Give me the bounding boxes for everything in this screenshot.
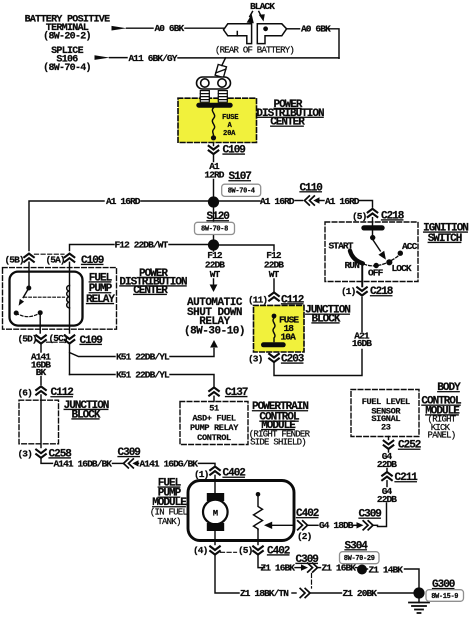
motor M xyxy=(203,500,228,525)
arrow from ASD relay label to K51 xyxy=(210,340,218,348)
relay coil xyxy=(67,286,70,308)
wire xyxy=(185,27,224,29)
ignition LOCK contact xyxy=(386,259,392,265)
svg-text:10A: 10A xyxy=(281,332,297,343)
fuel pump relay outline xyxy=(10,272,83,326)
svg-text:G4 18DB: G4 18DB xyxy=(319,520,354,531)
wire A21 16DB label xyxy=(352,331,372,350)
fuse A 20A element xyxy=(212,108,214,136)
ignition OFF contact xyxy=(374,263,379,268)
fuel level sender wiper arrow xyxy=(271,524,294,526)
svg-text:RELAY: RELAY xyxy=(86,294,115,306)
node SPLICE S106 label xyxy=(43,46,91,74)
svg-text:51: 51 xyxy=(209,404,219,414)
svg-text:(3): (3) xyxy=(248,354,263,365)
arrow into ASD relay label xyxy=(210,285,218,293)
wire A141 16DB BK xyxy=(40,344,42,352)
wire A141 16DB/BK xyxy=(41,458,53,463)
svg-text:(5D): (5D) xyxy=(18,334,37,345)
svg-text:ASD+ FUEL: ASD+ FUEL xyxy=(192,413,235,423)
svg-text:(1): (1) xyxy=(194,469,209,480)
svg-text:S120: S120 xyxy=(207,211,230,223)
fuse A 20A value label xyxy=(222,114,239,138)
fuel level sender dot xyxy=(256,492,261,497)
wire 5D inside relay xyxy=(39,313,41,333)
svg-text:C402: C402 xyxy=(296,508,319,520)
svg-text:8W-70-8: 8W-70-8 xyxy=(201,226,228,234)
wire resistor to pin 5 xyxy=(257,530,259,545)
svg-text:A141 16DB/BK: A141 16DB/BK xyxy=(54,458,113,469)
wire through junction block xyxy=(40,395,42,448)
svg-text:8W-70-29: 8W-70-29 xyxy=(344,555,375,563)
ignition RUN contact (thick) xyxy=(350,251,363,264)
relay contact common xyxy=(26,286,31,291)
power distribution center dashed box (relay) xyxy=(3,268,117,330)
svg-text:A1 16RD: A1 16RD xyxy=(106,196,141,207)
svg-text:BLOCK: BLOCK xyxy=(71,409,100,421)
wire A0 6BK left xyxy=(127,27,154,29)
svg-text:(1): (1) xyxy=(341,286,356,297)
battery terminal left (rear of battery) xyxy=(224,24,252,44)
svg-text:RUN: RUN xyxy=(345,260,361,271)
svg-text:C309: C309 xyxy=(118,447,141,459)
wire A0 6BK right xyxy=(287,28,300,30)
wire xyxy=(178,57,339,59)
wire dashed link between pins 4 and 5 xyxy=(221,551,237,553)
wire G4 18DB xyxy=(307,524,318,526)
arrow to battery positive terminal xyxy=(112,26,127,31)
wire xyxy=(213,180,215,198)
fuse 18 10A element xyxy=(272,314,277,319)
svg-text:C112: C112 xyxy=(281,294,304,306)
svg-text:(5): (5) xyxy=(238,545,253,556)
svg-text:A141 16DG/BK: A141 16DG/BK xyxy=(140,458,199,469)
node IGNITION SWITCH label xyxy=(423,223,468,245)
connector C252 xyxy=(384,441,394,449)
wire drop to fusible link xyxy=(222,58,226,66)
svg-text:(8W-70-4): (8W-70-4) xyxy=(43,62,91,74)
fuel pump module outline xyxy=(188,481,294,541)
fuse 18 bus bar xyxy=(261,342,286,347)
wire from A0 6BK down to splice feed xyxy=(329,29,340,59)
svg-text:12RD: 12RD xyxy=(204,170,224,181)
wire A1 16RD to ignition (right) xyxy=(219,200,260,202)
terminal spring right xyxy=(218,91,227,103)
wire A1 16RD to relay (left) xyxy=(141,200,208,202)
wire arrow from BLACK to right terminal xyxy=(259,12,265,22)
fuel level sender resistor xyxy=(254,497,263,530)
wire into ignition switch xyxy=(372,218,374,226)
wire Z1 18BK/TN xyxy=(215,555,239,593)
svg-text:FUSE: FUSE xyxy=(222,114,239,122)
svg-text:16DB: 16DB xyxy=(352,338,372,349)
ignition wiper arm with arrow xyxy=(373,240,381,251)
svg-text:Z1 20BK: Z1 20BK xyxy=(343,588,378,599)
svg-text:WT: WT xyxy=(210,269,221,280)
svg-text:C252: C252 xyxy=(398,440,421,452)
connector C109 (below PDC) xyxy=(209,146,219,154)
svg-text:8W-15-9: 8W-15-9 xyxy=(431,593,458,601)
node POWER DISTRIBUTION CENTER label (top) xyxy=(256,99,324,129)
svg-text:C109: C109 xyxy=(81,255,104,267)
wire 5C to K51 branches xyxy=(70,344,116,375)
svg-text:20A: 20A xyxy=(223,130,236,138)
svg-text:C203: C203 xyxy=(281,354,305,366)
node POWERTRAIN CONTROL MODULE label xyxy=(249,401,311,448)
svg-text:C110: C110 xyxy=(300,182,323,194)
wire A11 6BK/GY xyxy=(110,57,128,59)
wire dashed link between 5D and 5C xyxy=(47,341,65,343)
wire 5A into relay coil xyxy=(69,262,71,333)
node POWER DISTRIBUTION CENTER label (relay) xyxy=(119,268,187,297)
wire F12 to junction block fuse xyxy=(219,245,274,251)
relay contact to pin 5D xyxy=(38,310,43,315)
svg-text:(3): (3) xyxy=(18,448,33,459)
svg-text:PANEL): PANEL) xyxy=(428,431,456,441)
connector pass-through (two-cavity) xyxy=(197,77,231,89)
relay dashed contact arc xyxy=(16,313,40,317)
wire RUN output xyxy=(362,264,364,287)
svg-text:K51 22DB/YL: K51 22DB/YL xyxy=(116,351,170,362)
svg-text:OFF: OFF xyxy=(368,268,384,279)
svg-text:A0 6BK: A0 6BK xyxy=(301,24,331,35)
svg-text:(2): (2) xyxy=(297,531,312,542)
ignition switch dashed box xyxy=(325,222,418,282)
fusible link symbol xyxy=(215,64,226,77)
wire ignition output xyxy=(361,263,363,287)
svg-text:23: 23 xyxy=(381,423,391,433)
junction block box (yellow) xyxy=(254,305,305,352)
svg-text:C211: C211 xyxy=(395,472,419,484)
svg-text:PUMP RELAY: PUMP RELAY xyxy=(190,423,239,433)
arrow to splice S106 xyxy=(95,55,110,60)
svg-text:Z1 18BK/TN: Z1 18BK/TN xyxy=(240,588,289,599)
svg-text:C112: C112 xyxy=(51,387,74,399)
wire Z1 14BK xyxy=(366,568,369,570)
wire dashed link between C309 Z1 connectors xyxy=(311,574,313,589)
svg-text:CENTER: CENTER xyxy=(270,117,305,129)
node FUEL PUMP MODULE label xyxy=(150,478,188,528)
ground G300 xyxy=(418,599,420,603)
connector C211 xyxy=(382,472,392,480)
svg-text:8W-70-4: 8W-70-4 xyxy=(228,188,255,196)
svg-text:A11 6BK/GY: A11 6BK/GY xyxy=(129,53,178,64)
svg-text:C137: C137 xyxy=(225,387,248,399)
wire into fuel pump module xyxy=(214,475,216,493)
svg-text:C402: C402 xyxy=(267,545,290,557)
wire 5B into relay xyxy=(28,262,30,288)
svg-text:START: START xyxy=(329,240,354,251)
svg-text:(11): (11) xyxy=(248,294,267,305)
node BCM pin 23 text xyxy=(362,397,410,432)
svg-text:BODY: BODY xyxy=(437,382,461,394)
node FUEL PUMP RELAY label xyxy=(86,272,115,306)
svg-text:BLOCK: BLOCK xyxy=(311,313,340,325)
svg-text:CONTROL: CONTROL xyxy=(197,433,231,443)
wire dashed link between 5B and 5A xyxy=(35,253,65,255)
svg-text:TANK): TANK) xyxy=(157,517,180,527)
svg-text:S304: S304 xyxy=(345,540,369,552)
wire into PCM xyxy=(213,396,215,401)
node PCM pin 51 text xyxy=(190,404,239,443)
svg-text:(5B): (5B) xyxy=(5,255,24,266)
wire K51 22DB/YL lower xyxy=(70,374,116,376)
powertrain control module dashed box xyxy=(180,402,248,445)
svg-text:(5): (5) xyxy=(352,211,367,222)
junction block dashed box (left) xyxy=(19,400,59,444)
relay armature with arrow xyxy=(23,288,29,298)
wire BCM to C252 xyxy=(388,437,390,440)
body control module dashed box xyxy=(351,390,419,437)
wire bar to pivot xyxy=(372,231,374,236)
svg-text:C218: C218 xyxy=(370,286,394,298)
svg-text:CENTER: CENTER xyxy=(133,285,168,297)
ignition position labels xyxy=(329,240,418,278)
svg-text:S107: S107 xyxy=(229,171,252,183)
svg-text:C109: C109 xyxy=(80,335,103,347)
svg-text:A1 16RD: A1 16RD xyxy=(325,196,360,207)
wire from S107 to S120 xyxy=(213,208,215,240)
wire arrow from BLACK to left terminal xyxy=(247,12,254,24)
relay dashed linkage to coil xyxy=(24,296,65,298)
battery terminal right (rear of battery) xyxy=(257,24,286,44)
wire F12 22DB WT stack (ASD branch) xyxy=(213,250,215,252)
node JUNCTION BLOCK label (left) xyxy=(64,400,109,422)
wire motor to pin 4 xyxy=(214,531,216,545)
wire C203 to A21 xyxy=(274,350,362,376)
svg-text:(4): (4) xyxy=(193,545,208,556)
svg-text:SWITCH: SWITCH xyxy=(428,233,462,245)
ignition switch feed bar xyxy=(361,225,384,230)
node AUTOMATIC SHUT DOWN RELAY label xyxy=(184,297,245,337)
relay contact NO xyxy=(14,311,19,316)
wire G4 22DB upper xyxy=(388,450,390,453)
ignition pivot contact xyxy=(370,235,375,240)
svg-text:Z1 14BK: Z1 14BK xyxy=(369,564,404,575)
wire A1 12RD xyxy=(213,143,215,162)
svg-text:(8W-20-2): (8W-20-2) xyxy=(43,31,91,43)
wire Z1 16BK xyxy=(258,555,265,568)
motor M brush bottom xyxy=(207,523,224,531)
svg-text:K51 22DB/YL: K51 22DB/YL xyxy=(116,369,170,380)
svg-text:(IN FUEL: (IN FUEL xyxy=(150,507,188,517)
svg-text:(5A): (5A) xyxy=(46,255,65,266)
svg-text:BLACK: BLACK xyxy=(250,1,275,12)
svg-text:C402: C402 xyxy=(223,468,246,480)
svg-text:(REAR OF BATTERY): (REAR OF BATTERY) xyxy=(215,45,294,55)
svg-text:(8W-30-10): (8W-30-10) xyxy=(184,326,245,338)
terminal spring left xyxy=(200,91,209,103)
node BODY CONTROL MODULE label xyxy=(421,382,462,441)
power distribution center box (yellow) xyxy=(178,98,257,142)
ignition dashed position arc xyxy=(364,254,401,266)
svg-text:C309: C309 xyxy=(359,509,382,521)
wire G4 22DB lower xyxy=(386,481,388,487)
svg-text:A1 16RD: A1 16RD xyxy=(260,196,295,207)
svg-text:M: M xyxy=(213,508,218,518)
svg-text:C109: C109 xyxy=(223,145,246,157)
fuse 18 10A value label xyxy=(279,314,299,342)
svg-text:SIDE SHIELD): SIDE SHIELD) xyxy=(250,438,306,448)
svg-text:LOCK: LOCK xyxy=(392,263,412,274)
wire F12 22DB/WT to relay pin 5A xyxy=(169,244,208,246)
PDC bus bar xyxy=(196,103,232,108)
node BATTERY POSITIVE TERMINAL label xyxy=(25,15,111,43)
ground junction dot xyxy=(413,587,424,598)
svg-text:(6): (6) xyxy=(18,387,33,398)
svg-text:F12 22DB/WT: F12 22DB/WT xyxy=(115,239,169,250)
connector C309 (Z1 18BK/TN) xyxy=(300,589,310,598)
svg-text:Z1 16BK: Z1 16BK xyxy=(261,563,296,574)
motor M brush top xyxy=(207,493,224,501)
svg-text:C218: C218 xyxy=(381,210,405,222)
svg-text:ACC: ACC xyxy=(402,241,418,252)
ignition ACC contact xyxy=(398,251,403,256)
node JUNCTION BLOCK label (right) xyxy=(305,305,350,326)
connector C137 xyxy=(209,387,219,395)
svg-text:A0 6BK: A0 6BK xyxy=(155,23,185,34)
